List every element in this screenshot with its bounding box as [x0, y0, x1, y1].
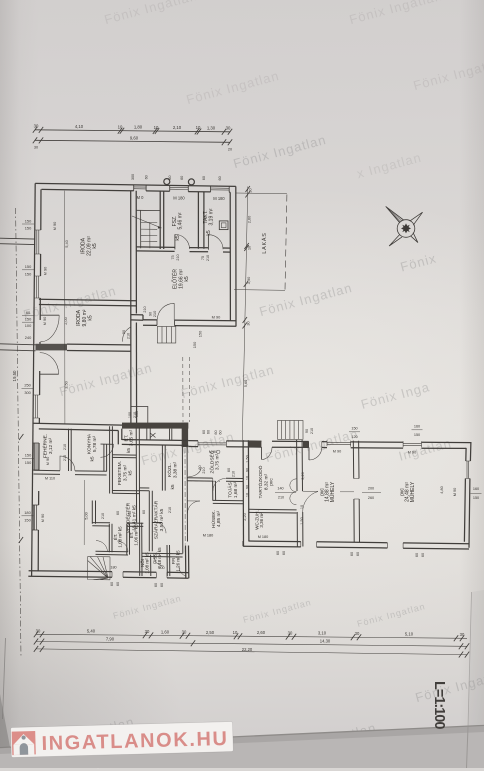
svg-text:60: 60 [160, 583, 164, 587]
connector wall x243 [243, 440, 249, 546]
svg-text:10: 10 [154, 125, 159, 130]
TOJAS door arc [213, 478, 226, 491]
svg-text:FEKETEM.: FEKETEM. [117, 461, 123, 485]
VENDEGTER top wall y471 [34, 470, 107, 475]
svg-text:k5: k5 [206, 230, 212, 236]
svg-text:60: 60 [168, 175, 172, 179]
svg-text:210: 210 [310, 428, 314, 434]
svg-text:75: 75 [201, 256, 205, 260]
lakas horizontal ties [236, 192, 287, 195]
TARTOZKODO left dim labels [243, 455, 305, 520]
left wall labels window2 [25, 264, 48, 276]
svg-text:k5: k5 [92, 243, 98, 249]
left wall labels door zone [25, 310, 47, 340]
svg-text:KONYHA: KONYHA [87, 433, 93, 454]
wall x136-139 VENDEGTER east [136, 427, 140, 576]
svg-text:22,20: 22,20 [242, 647, 253, 652]
wall TARTOZKODO/MUHELY x297 [297, 440, 303, 547]
svg-text:60: 60 [202, 430, 206, 434]
svg-text:90: 90 [305, 429, 309, 433]
watermarks [103, 0, 199, 27]
svg-text:210: 210 [176, 254, 180, 260]
FEHERNEMU door [60, 456, 75, 471]
bottom dimension row1 [36, 634, 467, 638]
svg-text:120: 120 [351, 435, 357, 439]
bottom dimension row2 [36, 642, 467, 647]
svg-text:3,52 m² k5: 3,52 m² k5 [159, 508, 165, 531]
floor drain ZOLDSEG [217, 450, 220, 453]
svg-text:M 90: M 90 [333, 450, 341, 454]
svg-text:3,50: 3,50 [63, 380, 68, 388]
stairs upper block [132, 210, 162, 248]
left wall window 1 [35, 230, 41, 254]
svg-text:1,26 m² k5: 1,26 m² k5 [176, 550, 181, 572]
TARTOZKODO entry door [261, 447, 263, 459]
zone divide dash [189, 480, 221, 482]
wall FSZ/TAKT x199 [198, 192, 204, 249]
svg-text:60: 60 [116, 582, 120, 586]
svg-text:5,78 m²: 5,78 m² [92, 435, 98, 452]
svg-text:3,10: 3,10 [318, 631, 327, 636]
svg-text:210: 210 [101, 513, 105, 519]
logo house icon [12, 731, 36, 755]
svg-text:210: 210 [168, 507, 172, 513]
wall ET/FEKETEM column x110 [110, 426, 113, 493]
TOJAS bottom wall y501 [213, 500, 244, 503]
svg-text:M 0: M 0 [137, 195, 145, 200]
svg-text:4,10: 4,10 [75, 124, 84, 129]
right vertical dimension line [242, 187, 248, 441]
bottom dimension row3 [36, 649, 467, 655]
svg-text:M 90: M 90 [42, 316, 47, 325]
dashed boundary line upper mid [183, 357, 190, 422]
svg-text:5,00: 5,00 [84, 511, 89, 519]
svg-text:5,60: 5,60 [243, 379, 248, 387]
svg-text:150: 150 [25, 264, 32, 269]
svg-text:TOJÁS: TOJÁS [227, 482, 234, 497]
svg-text:10: 10 [118, 124, 123, 129]
svg-text:9,60: 9,60 [130, 136, 139, 141]
exit opening labels [148, 310, 222, 348]
svg-text:4,80: 4,80 [440, 486, 444, 493]
KOZL walls [162, 445, 187, 553]
svg-text:5,40: 5,40 [87, 629, 96, 634]
svg-text:180: 180 [110, 566, 116, 570]
svg-text:3,36 m²: 3,36 m² [259, 512, 264, 528]
window right-top 1 [327, 440, 351, 446]
left wall window 4 [33, 443, 39, 470]
svg-text:160: 160 [414, 425, 420, 429]
svg-text:60: 60 [180, 176, 184, 180]
left wall labels window4 [25, 453, 50, 466]
svg-text:LAKÁS: LAKÁS [261, 232, 268, 253]
svg-text:150: 150 [198, 330, 203, 337]
svg-text:4,85 m²: 4,85 m² [216, 510, 222, 527]
svg-text:60: 60 [26, 310, 31, 315]
svg-text:250: 250 [24, 383, 31, 388]
room label IRODA 9,80 [76, 309, 94, 326]
svg-text:150: 150 [25, 219, 32, 224]
labels above lower-left wall [63, 412, 137, 450]
fence line exiting left y344 [0, 344, 36, 351]
svg-text:M 180: M 180 [203, 534, 214, 538]
svg-text:3,38 m²: 3,38 m² [173, 461, 179, 478]
lower-left top wall solid segment [122, 423, 188, 429]
svg-text:30: 30 [246, 321, 251, 326]
svg-text:60: 60 [350, 552, 354, 556]
svg-text:240: 240 [25, 335, 32, 340]
svg-text:210: 210 [63, 444, 67, 450]
left wall window 5 [33, 505, 39, 530]
door IRODA 9.80 east [123, 327, 131, 342]
svg-text:210: 210 [133, 412, 137, 418]
ZOLDSEG bottom wall y478 [188, 478, 244, 482]
svg-text:1,30: 1,30 [207, 125, 216, 130]
svg-text:60: 60 [202, 176, 206, 180]
svg-text:10: 10 [233, 630, 238, 635]
room label NOI [139, 552, 150, 574]
svg-text:2,50: 2,50 [206, 630, 215, 635]
bottom wall right section [243, 541, 469, 549]
room label FSZ [172, 212, 184, 240]
svg-text:M 90: M 90 [212, 314, 221, 319]
fence line exiting left y238 [0, 238, 35, 244]
svg-text:1,08 m² k5: 1,08 m² k5 [118, 526, 123, 548]
svg-text:FEHÉRNE.: FEHÉRNE. [42, 434, 49, 458]
svg-text:30: 30 [355, 631, 360, 636]
svg-text:75: 75 [171, 255, 175, 259]
svg-text:M 90: M 90 [453, 488, 457, 496]
ELOTER exit steps [157, 327, 176, 344]
FEKETEM bottom y490 [112, 491, 139, 494]
svg-text:3,20: 3,20 [301, 472, 305, 479]
right bottom openings [301, 542, 403, 549]
right wall window [465, 461, 470, 479]
svg-text:SZÁRAZRAKTÁR: SZÁRAZRAKTÁR [153, 500, 160, 539]
paper bottom edge [0, 725, 484, 768]
room label ET 1,06 [128, 524, 139, 546]
top wall window jambs [134, 185, 230, 192]
wall between IRODA rooms [39, 299, 136, 306]
room label ELOTER [172, 269, 191, 289]
svg-text:ZÖLDSÉG: ZÖLDSÉG [209, 450, 216, 473]
top row1 labels [34, 124, 231, 131]
svg-text:k5: k5 [126, 448, 132, 453]
svg-text:150: 150 [414, 433, 420, 437]
svg-text:150: 150 [473, 496, 479, 500]
room label VENDEGTER [84, 502, 138, 533]
svg-text:60: 60 [218, 176, 222, 180]
left inner wall segments [38, 189, 41, 571]
labels above right-top wall [305, 425, 423, 455]
svg-text:60: 60 [214, 430, 218, 434]
left outer wall [32, 183, 36, 576]
connector wall x186 [186, 546, 189, 579]
svg-text:60: 60 [356, 552, 360, 556]
svg-text:10: 10 [246, 493, 250, 497]
svg-text:60: 60 [421, 553, 425, 557]
wall KONYHA east x105 [104, 444, 107, 471]
misc tiny labels lower-left [101, 465, 236, 519]
ET/FEKETEM divide y455 [112, 455, 136, 458]
svg-text:210: 210 [143, 306, 147, 312]
svg-text:20: 20 [228, 148, 232, 152]
svg-text:210: 210 [278, 496, 284, 500]
wall FEHERNEMU/KONYHA x69 [69, 429, 72, 471]
room label FEKETEM [117, 461, 134, 485]
paper right edge [468, 592, 472, 727]
svg-text:210: 210 [128, 511, 132, 517]
room label FFI [171, 550, 181, 572]
dark wall stub at 343 [36, 344, 68, 351]
wall right of IRODA rooms x131 [131, 191, 137, 428]
cell verticals [92, 501, 170, 577]
top wall inner segments [42, 189, 231, 192]
ZOLDSEG door arc [188, 467, 201, 477]
svg-text:60: 60 [145, 175, 149, 179]
ELOTER exit jog wall [143, 315, 236, 326]
window right-top 2 [403, 441, 421, 447]
chimney vent circle 1 [164, 179, 170, 185]
svg-text:14,30: 14,30 [320, 639, 331, 644]
porch rect [131, 407, 148, 425]
cells top wall y523 [92, 523, 143, 527]
svg-text:60: 60 [116, 511, 120, 515]
svg-text:5,10: 5,10 [405, 631, 414, 636]
interior dim line x64 [64, 191, 66, 424]
room label SZARAZRAKTAR [153, 500, 166, 539]
svg-text:1,68 m²: 1,68 m² [233, 481, 239, 498]
svg-text:2,00: 2,00 [63, 316, 68, 324]
svg-text:1,08 m² k5: 1,08 m² k5 [145, 552, 150, 574]
logo strip [11, 722, 234, 758]
svg-text:100: 100 [25, 323, 32, 328]
svg-text:7,90: 7,90 [106, 636, 115, 641]
svg-text:90: 90 [122, 330, 126, 334]
WC door arcs [290, 479, 297, 505]
svg-text:210: 210 [202, 467, 206, 473]
svg-text:210: 210 [63, 455, 67, 461]
svg-text:300: 300 [24, 390, 31, 395]
svg-text:60: 60 [276, 551, 280, 555]
room label TARTOZKODO [257, 465, 275, 498]
svg-text:210: 210 [232, 471, 236, 477]
svg-text:MŰHELY: MŰHELY [329, 481, 336, 502]
svg-text:30: 30 [288, 630, 293, 635]
svg-text:3,12 m²: 3,12 m² [48, 437, 54, 454]
lower-right top wall [188, 441, 471, 449]
svg-text:30: 30 [34, 146, 38, 150]
svg-text:2,60: 2,60 [257, 630, 266, 635]
left wall labels window5 [24, 510, 45, 523]
svg-text:k5: k5 [88, 315, 94, 321]
FSZ door leaf and arc [174, 234, 176, 249]
room label ZOLDSEG [209, 450, 221, 473]
svg-text:160: 160 [473, 487, 479, 491]
svg-text:KÖZL.: KÖZL. [166, 463, 173, 477]
svg-text:60: 60 [154, 583, 158, 587]
upper right wall x236 [230, 186, 236, 326]
svg-text:1,06 m² k5: 1,06 m² k5 [134, 524, 139, 546]
svg-text:M 90: M 90 [40, 513, 45, 522]
LAKAS dimension line dashed [285, 195, 287, 291]
svg-text:150: 150 [192, 341, 197, 348]
svg-text:60: 60 [142, 510, 146, 514]
svg-text:150: 150 [24, 518, 31, 523]
svg-text:M 110: M 110 [45, 477, 55, 481]
HUSEK door [187, 501, 200, 513]
top wall outer [35, 183, 236, 186]
svg-text:k5: k5 [170, 484, 176, 489]
wall under FSZ TAKT y247 [136, 247, 230, 252]
room label HUSEK [203, 510, 222, 537]
left wall window 3 [33, 395, 39, 418]
svg-text:2,10: 2,10 [173, 125, 182, 130]
svg-text:pvc: pvc [270, 478, 275, 486]
svg-text:HÚSEK.: HÚSEK. [210, 510, 217, 528]
svg-text:3,65 m²: 3,65 m² [129, 429, 135, 446]
room label MUHELY 24,48 [400, 481, 417, 502]
SZARAZRAKTAR walls [140, 488, 162, 551]
TARTOZKODO inner walls [249, 509, 297, 513]
svg-text:30: 30 [182, 630, 187, 635]
svg-text:150: 150 [25, 460, 32, 465]
svg-text:1,80: 1,80 [134, 125, 143, 130]
svg-text:2,20: 2,20 [243, 513, 247, 520]
compass rose [386, 206, 423, 246]
svg-text:k5: k5 [175, 235, 181, 241]
svg-text:30: 30 [36, 628, 41, 633]
svg-text:MŰHELY: MŰHELY [409, 481, 416, 502]
room label KONYHA [87, 433, 99, 461]
svg-text:180: 180 [24, 510, 31, 515]
svg-text:1,50: 1,50 [246, 455, 250, 462]
left wall labels window1 [25, 219, 57, 231]
cells mid wall y552 [96, 551, 183, 557]
exterior steps above right wall [278, 421, 304, 440]
svg-text:ÉT.: ÉT. [123, 435, 130, 442]
svg-text:2,60: 2,60 [247, 215, 252, 223]
svg-text:10: 10 [196, 125, 201, 130]
svg-text:100: 100 [128, 412, 132, 418]
room label TAKT [203, 208, 215, 235]
TAKT appliance [219, 221, 228, 230]
svg-text:140: 140 [277, 487, 283, 491]
svg-text:90: 90 [246, 468, 250, 472]
svg-text:210: 210 [152, 310, 157, 317]
KONYHA north inner wall [122, 440, 189, 446]
ELOTER bottom wall [131, 315, 212, 326]
svg-text:k5: k5 [184, 276, 190, 282]
wall step down x120 [118, 429, 122, 445]
svg-text:5,46 m²: 5,46 m² [178, 212, 184, 229]
svg-text:1,60: 1,60 [161, 629, 170, 634]
svg-text:TARTÓZKODÓ: TARTÓZKODÓ [257, 465, 264, 498]
svg-text:M 180: M 180 [213, 196, 225, 201]
svg-text:60: 60 [282, 551, 286, 555]
KONYHA door leaf and arc [101, 443, 114, 445]
property line left [16, 208, 21, 657]
top wall opening labels [137, 195, 226, 201]
left wall labels window3 250/300 [24, 383, 31, 396]
paper left crease [3, 638, 6, 719]
svg-text:90: 90 [246, 485, 250, 489]
svg-text:260: 260 [368, 496, 374, 500]
svg-text:150: 150 [25, 453, 32, 458]
ELOTER exit door arc [157, 320, 175, 326]
TAKT door leaf and arc [207, 235, 209, 250]
svg-text:3,75 m²: 3,75 m² [215, 453, 221, 470]
room label PISS [153, 547, 163, 569]
svg-text:300: 300 [131, 174, 135, 180]
svg-text:30: 30 [226, 126, 231, 131]
svg-text:60: 60 [207, 430, 211, 434]
corridor east wall below ELOTER [135, 323, 137, 429]
dimension chain top row2 (9,60) [33, 137, 232, 145]
chimney vent circle 2 [188, 179, 194, 185]
fan stairs VENDEGTER [88, 557, 111, 580]
right outer wall [464, 442, 471, 548]
svg-text:60: 60 [110, 582, 114, 586]
svg-text:L=1:100: L=1:100 [431, 681, 447, 729]
room label MUHELY 14,88 [320, 481, 337, 502]
svg-text:19,50: 19,50 [12, 370, 17, 382]
svg-text:150: 150 [25, 271, 32, 276]
svg-text:k5: k5 [90, 456, 96, 461]
room label IRODA 22,09 [81, 236, 99, 256]
svg-text:60: 60 [227, 468, 231, 472]
room label FEHERNEMU [42, 434, 55, 458]
svg-text:210: 210 [127, 333, 131, 339]
svg-text:M 180: M 180 [173, 195, 185, 200]
svg-text:150: 150 [25, 317, 32, 322]
room label WC-ZUH [255, 510, 265, 530]
svg-text:150: 150 [351, 427, 357, 431]
svg-text:30: 30 [34, 124, 39, 129]
door labels 75/210 under wall [171, 254, 210, 261]
svg-text:10: 10 [246, 476, 250, 480]
svg-text:5,40: 5,40 [64, 239, 69, 247]
window right-top 0 [198, 441, 226, 447]
svg-text:M 90: M 90 [43, 266, 48, 275]
svg-text:M 180: M 180 [258, 535, 269, 539]
door arc left wall lower [40, 373, 59, 375]
svg-text:150: 150 [25, 226, 32, 231]
svg-text:M 90: M 90 [408, 451, 416, 455]
wall stairs/FSZ x160 [160, 191, 164, 249]
MUHELY14 door arc [303, 491, 319, 512]
svg-text:60: 60 [219, 430, 223, 434]
paper right edge below fold [467, 727, 469, 768]
small 60 labels above top wall [131, 174, 222, 181]
room label KOZL [166, 461, 179, 489]
wall MUHELY divide x356 [353, 441, 359, 543]
svg-text:30: 30 [460, 632, 465, 637]
svg-text:k5: k5 [128, 470, 134, 475]
dark wall chunks right-top [248, 441, 261, 447]
svg-text:M 90: M 90 [52, 221, 57, 230]
TOJAS left wall [213, 481, 216, 501]
dimension chain top row1 [33, 127, 232, 135]
svg-text:210: 210 [206, 255, 210, 261]
svg-text:30: 30 [145, 629, 150, 634]
small door arcs cells [96, 541, 108, 552]
room label ET 1,08 [112, 526, 123, 548]
top wall window sills [134, 187, 230, 190]
room label TOJAS [227, 481, 240, 498]
lower-left top wall [33, 423, 122, 430]
svg-text:ELŐTÉR: ELŐTÉR [172, 269, 179, 289]
